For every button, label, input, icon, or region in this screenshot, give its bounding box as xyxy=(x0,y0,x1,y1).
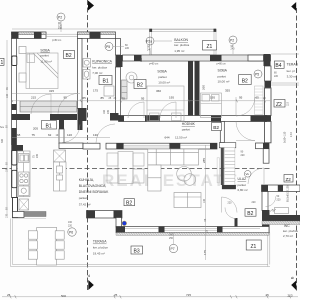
svg-text:10,00 m²: 10,00 m² xyxy=(158,81,170,85)
P5 circle bathroom xyxy=(105,43,130,51)
bed bedroom1 xyxy=(147,86,184,121)
svg-text:ker. pločice: ker. pločice xyxy=(93,246,108,250)
svg-text:315: 315 xyxy=(49,89,54,93)
nightstand 1 xyxy=(19,47,26,54)
svg-text:6,80 m²: 6,80 m² xyxy=(238,188,248,192)
horizontal dashed line xyxy=(2,168,270,170)
hodnik south glass wall xyxy=(106,143,217,149)
svg-text:parket: parket xyxy=(158,75,167,79)
terrace outline xyxy=(11,219,271,267)
chairs right xyxy=(55,231,64,259)
SW L-wall vertical xyxy=(13,198,18,218)
tag Z2 wc xyxy=(284,175,293,183)
svg-text:SOBA: SOBA xyxy=(157,70,167,74)
svg-text:P2: P2 xyxy=(230,39,234,43)
svg-text:TERASA: TERASA xyxy=(93,240,107,244)
svg-text:Z1: Z1 xyxy=(207,44,213,50)
tag B2 hodnik xyxy=(212,123,222,132)
svg-text:SOBA: SOBA xyxy=(40,48,50,52)
tag B2 living xyxy=(124,199,135,207)
bottom dim line xyxy=(2,296,298,298)
plant bedroom1 xyxy=(126,72,137,83)
svg-text:B2: B2 xyxy=(66,53,72,59)
svg-text:68: 68 xyxy=(17,133,21,137)
P2 circle top-right xyxy=(229,36,237,54)
svg-text:725: 725 xyxy=(186,293,191,297)
svg-text:HODNIK: HODNIK xyxy=(182,122,196,126)
svg-text:25: 25 xyxy=(114,293,118,297)
east column xyxy=(264,54,271,66)
coffee table xyxy=(177,167,196,186)
svg-text:260: 260 xyxy=(202,85,206,90)
entry wall y184 xyxy=(262,185,301,192)
long south wall xyxy=(116,227,269,233)
svg-text:19,45 m²: 19,45 m² xyxy=(93,252,105,256)
svg-text:Z2: Z2 xyxy=(286,177,292,182)
svg-text:175: 175 xyxy=(203,250,207,255)
door arc closet xyxy=(62,125,80,143)
door arc bedroom1 xyxy=(160,102,176,118)
svg-text:95: 95 xyxy=(141,97,145,101)
svg-text:Z1: Z1 xyxy=(251,244,257,250)
svg-text:220: 220 xyxy=(274,75,279,78)
tag B1 bath xyxy=(99,76,112,85)
svg-text:WC: WC xyxy=(284,224,290,228)
svg-text:240: 240 xyxy=(58,27,63,30)
svg-text:parket: parket xyxy=(79,196,88,200)
small wall piece near wc door xyxy=(235,218,238,227)
svg-text:parket: parket xyxy=(218,75,227,79)
svg-text:P7: P7 xyxy=(171,247,175,251)
svg-text:P2a: P2a xyxy=(146,40,152,44)
closet wall pieces xyxy=(59,120,64,129)
svg-text:ker. pločice: ker. pločice xyxy=(92,65,107,69)
north wall segment 2 xyxy=(78,32,116,39)
svg-text:120: 120 xyxy=(67,133,72,137)
east window frame entry xyxy=(263,149,269,164)
tag fragment left edge xyxy=(0,58,4,66)
P7 circle xyxy=(169,233,178,253)
svg-text:BLAGOVAONICA,: BLAGOVAONICA, xyxy=(79,184,107,188)
sofa chaise left xyxy=(148,165,161,191)
svg-text:1: 1 xyxy=(1,60,4,66)
svg-text:P2: P2 xyxy=(58,16,62,20)
svg-text:P6: P6 xyxy=(69,231,73,235)
svg-text:175: 175 xyxy=(93,89,98,93)
tag B4 xyxy=(274,61,284,69)
svg-text:65: 65 xyxy=(83,96,87,100)
chairs left xyxy=(28,231,37,259)
svg-text:B2: B2 xyxy=(126,201,132,207)
section arrow A top xyxy=(88,1,94,11)
section line B xyxy=(296,8,298,292)
window sash left 2 xyxy=(12,170,17,187)
svg-text:7,00 m²: 7,00 m² xyxy=(92,71,102,75)
P2a circle balcony xyxy=(146,37,172,55)
stair bottom bar xyxy=(222,185,236,189)
section line A xyxy=(87,0,89,290)
svg-text:TERAS: TERAS xyxy=(287,63,299,67)
tag B3 terrace xyxy=(131,246,143,255)
map pin blue dot xyxy=(122,221,127,226)
svg-text:205: 205 xyxy=(107,109,110,114)
svg-text:DNEVNI BORAVAK: DNEVNI BORAVAK xyxy=(79,190,109,194)
door arc bathroom xyxy=(128,102,144,118)
svg-text:240: 240 xyxy=(147,48,152,51)
bed bedroom2 xyxy=(201,93,222,118)
bedroom1 west wall xyxy=(116,67,121,116)
bathroom sink xyxy=(83,59,91,68)
svg-text:B2: B2 xyxy=(213,125,219,131)
door arc bedroom2 xyxy=(236,97,255,116)
balcony band wall xyxy=(123,55,271,61)
dim line y100.5 xyxy=(12,100,270,102)
SW L-wall horizontal xyxy=(13,212,25,218)
svg-text:ker. pločice: ker. pločice xyxy=(283,229,298,233)
tag B2 room1 xyxy=(64,51,75,60)
door arc hodnik-closet xyxy=(96,124,115,143)
svg-text:Z2: Z2 xyxy=(276,102,282,108)
svg-text:ULAZ: ULAZ xyxy=(238,177,247,181)
svg-text:62: 62 xyxy=(48,133,52,137)
svg-text:B2: B2 xyxy=(247,211,253,217)
door arc room1 xyxy=(31,94,51,114)
svg-text:85: 85 xyxy=(101,96,105,100)
svg-text:160: 160 xyxy=(103,109,106,114)
svg-text:B3: B3 xyxy=(134,249,140,255)
svg-text:220: 220 xyxy=(68,225,73,228)
svg-text:2,70 m²: 2,70 m² xyxy=(283,234,293,238)
section arrow B top xyxy=(291,2,296,11)
svg-text:11,60 m²: 11,60 m² xyxy=(40,60,52,64)
svg-text:parket: parket xyxy=(182,128,191,132)
corridor wall right part xyxy=(119,116,267,122)
entry north wall piece xyxy=(256,143,270,149)
NE terrace outline xyxy=(271,54,299,85)
tag B2 bedroom1 xyxy=(134,80,146,89)
top reference line xyxy=(12,28,216,30)
door arc living-terrace xyxy=(225,208,236,219)
svg-text:ker. pločica: ker. pločica xyxy=(174,43,189,47)
svg-text:37,42 m²: 37,42 m² xyxy=(79,202,91,206)
svg-text:10,00 m²: 10,00 m² xyxy=(218,80,230,84)
bed room1 xyxy=(26,53,58,89)
svg-text:SOBA: SOBA xyxy=(218,68,228,72)
stairs xyxy=(225,148,235,185)
living east wall xyxy=(221,148,224,185)
Vu circle xyxy=(244,171,251,178)
sink kitchen xyxy=(19,154,30,163)
svg-text:REAL ESTATE: REAL ESTATE xyxy=(102,171,239,190)
svg-text:65: 65 xyxy=(256,95,260,99)
tag B1 closet xyxy=(42,121,57,130)
tag Z1 south xyxy=(246,240,261,250)
tag B2 south xyxy=(245,209,256,217)
svg-text:B4: B4 xyxy=(275,63,281,69)
bedrooms divider wall xyxy=(188,61,193,116)
north wall segment 1 xyxy=(12,32,47,39)
handrail xyxy=(217,158,219,183)
tag Z1 balcony xyxy=(203,41,217,51)
svg-text:B1: B1 xyxy=(46,123,52,129)
svg-text:300: 300 xyxy=(1,138,4,143)
terrace hatch edge xyxy=(13,218,47,220)
kitchen counter left xyxy=(18,151,31,197)
svg-text:p=80 cm: p=80 cm xyxy=(217,63,226,66)
nightstand 2 xyxy=(19,73,26,82)
svg-text:644: 644 xyxy=(165,136,170,140)
door arc entry xyxy=(248,168,264,184)
wardrobe bedroom1 xyxy=(122,80,128,99)
svg-text:P5: P5 xyxy=(106,45,110,49)
svg-text:220: 220 xyxy=(277,198,282,201)
window sash room1 xyxy=(12,56,17,66)
svg-text:220: 220 xyxy=(241,154,246,157)
svg-text:95: 95 xyxy=(239,95,243,99)
gray bar xyxy=(24,212,46,217)
window lines bedrooms xyxy=(142,56,211,58)
svg-text:B2: B2 xyxy=(137,83,143,89)
sofa bottom xyxy=(174,193,201,208)
wc sink xyxy=(275,208,289,214)
door arc hodnik-living xyxy=(236,122,255,141)
P5 circle bedroom2 xyxy=(254,70,279,78)
svg-text:25: 25 xyxy=(266,293,270,297)
dining table xyxy=(37,228,57,266)
svg-text:205: 205 xyxy=(33,127,38,131)
svg-text:p=80 cm: p=80 cm xyxy=(52,39,61,42)
hodnik east wall xyxy=(220,122,224,143)
svg-text:B1: B1 xyxy=(103,79,109,85)
svg-text:75: 75 xyxy=(32,133,36,137)
svg-text:3,30 m²: 3,30 m² xyxy=(287,74,297,78)
svg-text:B2: B2 xyxy=(242,78,248,84)
sw corner column xyxy=(262,210,270,233)
svg-text:220: 220 xyxy=(228,202,233,205)
tag B2 bedroom2 xyxy=(239,75,252,85)
svg-text:95: 95 xyxy=(64,95,68,99)
svg-text:130: 130 xyxy=(6,93,9,98)
wc vent symbols xyxy=(270,209,276,212)
svg-text:110: 110 xyxy=(287,102,290,106)
dining chairs right xyxy=(133,153,144,183)
window W top xyxy=(46,33,78,35)
svg-text:parket: parket xyxy=(238,183,247,187)
bathroom SE column xyxy=(116,55,123,67)
P2 circle top-left xyxy=(57,13,65,32)
svg-text:KUPAONICA: KUPAONICA xyxy=(92,60,112,64)
svg-text:195: 195 xyxy=(210,95,215,99)
stair landing xyxy=(219,143,236,148)
svg-text:280: 280 xyxy=(140,57,143,62)
balcony outline xyxy=(150,30,217,56)
section arrow B bottom xyxy=(291,281,296,291)
tag Z2 entry xyxy=(274,100,285,108)
svg-text:85,5x60,10,105: 85,5x60,10,105 xyxy=(287,185,290,202)
svg-text:parket: parket xyxy=(40,54,49,58)
south step wall xyxy=(87,211,123,219)
svg-text:ker. pl: ker. pl xyxy=(287,69,295,73)
svg-text:360: 360 xyxy=(156,89,161,93)
bathroom washer xyxy=(104,86,114,96)
shaft X box xyxy=(19,199,29,210)
svg-text:1,95 m²: 1,95 m² xyxy=(174,49,184,53)
svg-text:215: 215 xyxy=(31,95,36,99)
svg-text:223: 223 xyxy=(288,294,293,298)
door arc wc inner xyxy=(266,196,276,206)
bathroom east wall xyxy=(116,39,121,56)
bathroom west wall xyxy=(78,39,83,109)
svg-text:P5: P5 xyxy=(255,73,259,77)
svg-text:2,40: 2,40 xyxy=(290,132,293,137)
svg-text:70: 70 xyxy=(122,97,126,101)
svg-text:355: 355 xyxy=(225,89,230,93)
svg-text:205: 205 xyxy=(36,153,39,158)
svg-text:25: 25 xyxy=(7,293,11,297)
section arrow A bottom xyxy=(88,280,94,290)
bathroom wc xyxy=(83,70,90,80)
sofa top xyxy=(148,149,199,165)
kitchen island xyxy=(54,150,67,191)
svg-text:12,50 m²: 12,50 m² xyxy=(175,136,187,140)
svg-text:p=80 cm: p=80 cm xyxy=(149,63,158,66)
wc south wall xyxy=(270,215,301,221)
dining chairs left xyxy=(107,153,118,183)
svg-text:500: 500 xyxy=(61,294,66,298)
wall connector xyxy=(116,218,122,228)
svg-text:220: 220 xyxy=(252,201,257,204)
P6 circle xyxy=(68,221,76,236)
svg-text:Vu: Vu xyxy=(246,172,250,176)
wardrobe room1 xyxy=(20,101,77,112)
oven xyxy=(19,186,30,196)
door arc wc xyxy=(222,197,238,213)
svg-text:Sce: Sce xyxy=(0,126,5,129)
east wall upper xyxy=(265,66,272,81)
wc west wall xyxy=(262,192,268,211)
svg-text:220: 220 xyxy=(125,47,130,50)
svg-text:195: 195 xyxy=(169,95,174,99)
door arc bathroom west xyxy=(58,94,78,114)
left wall xyxy=(12,39,17,198)
svg-text:130: 130 xyxy=(93,133,98,137)
svg-text:KUHINJA,: KUHINJA, xyxy=(79,178,95,182)
svg-text:5x30=1,50: 5x30=1,50 xyxy=(284,131,287,143)
interior wall row left xyxy=(12,114,31,120)
dining table living xyxy=(118,152,133,184)
svg-text:BALKON: BALKON xyxy=(174,38,188,42)
hob xyxy=(19,172,30,185)
wardrobe bedroom2 xyxy=(255,86,264,115)
interior wall center xyxy=(110,113,119,121)
window sash left 1 xyxy=(12,150,17,165)
svg-text:250: 250 xyxy=(169,237,174,240)
